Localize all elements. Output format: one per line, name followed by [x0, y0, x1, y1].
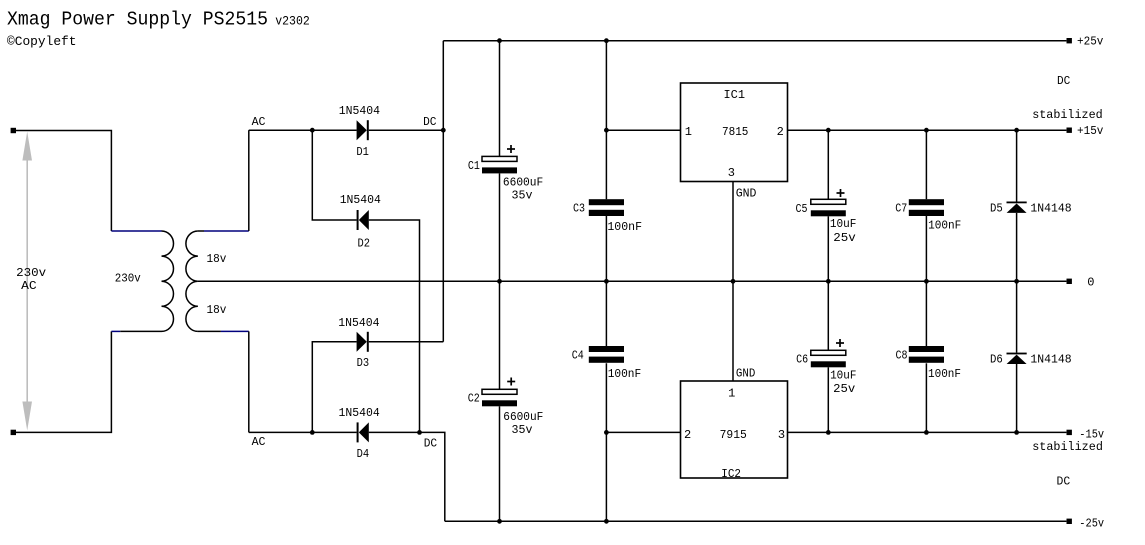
svg-text:D3: D3 [357, 356, 370, 370]
svg-text:1N4148: 1N4148 [1030, 353, 1071, 367]
junction +DC top [441, 128, 446, 133]
svg-text:D2: D2 [358, 236, 371, 250]
wire -25v rail [445, 520, 1067, 522]
diode D1 [357, 120, 369, 140]
svg-text:1: 1 [728, 386, 735, 400]
wire C2 top [499, 281, 501, 389]
junction AC bottom [310, 430, 315, 435]
wire IC2 pin2 input [606, 431, 680, 433]
svg-text:2: 2 [777, 125, 784, 139]
wire D3 cathode to +DC node [369, 341, 444, 343]
svg-text:10uF: 10uF [830, 217, 857, 231]
wire C5 top [827, 130, 829, 199]
svg-text:7915: 7915 [720, 428, 747, 442]
wire secondary top [198, 130, 249, 231]
svg-text:C8: C8 [896, 349, 908, 363]
svg-text:v2302: v2302 [275, 14, 310, 29]
svg-text:1N5404: 1N5404 [339, 406, 380, 420]
svg-text:10uF: 10uF [830, 368, 856, 382]
wire C5 bottom [827, 216, 829, 281]
svg-text:35v: 35v [512, 188, 533, 202]
svg-text:D5: D5 [990, 202, 1003, 216]
svg-text:+15v: +15v [1077, 124, 1103, 138]
wire C4 bottom / -DC feed [605, 363, 607, 521]
label + C6 [836, 342, 844, 344]
output terminal 0 [1067, 279, 1072, 284]
wire IC1 pin3 to 0 [732, 182, 734, 282]
svg-text:AC: AC [252, 115, 266, 129]
junction C3 0 rail [604, 279, 609, 284]
svg-text:18v: 18v [207, 303, 227, 317]
wire D6 bottom [1016, 364, 1018, 432]
svg-text:3: 3 [728, 166, 735, 180]
capacitor C6 [811, 350, 846, 367]
output terminal -25v [1067, 519, 1072, 524]
input terminal bottom-left [11, 430, 16, 435]
wire D1 cathode to +DC node [369, 129, 444, 131]
diode D6 [1007, 353, 1027, 364]
capacitor C2 [482, 389, 517, 406]
svg-text:C1: C1 [468, 159, 480, 173]
wire D2 anode to -DC link [369, 220, 420, 432]
svg-text:D4: D4 [357, 447, 370, 461]
svg-text:C5: C5 [796, 202, 808, 216]
svg-text:stabilized: stabilized [1032, 440, 1103, 454]
op-amp/regulator IC2 box [681, 381, 788, 478]
capacitor C1 [482, 156, 517, 173]
wire +DC vertical [442, 41, 444, 342]
svg-text:C7: C7 [895, 202, 907, 216]
svg-text:1N5404: 1N5404 [339, 104, 380, 118]
wire AC top [249, 129, 357, 131]
label + C2 [507, 381, 515, 383]
transformer T1 primary winding [162, 231, 174, 331]
wire C7 top [925, 130, 927, 199]
capacitor C4 [589, 346, 624, 363]
diode D2 [357, 210, 369, 230]
svg-text:©Copyleft: ©Copyleft [7, 34, 77, 49]
wire D4 anode to -DC node [369, 432, 445, 521]
junction GND 0 rail [731, 279, 736, 284]
junction C1 +25v rail [497, 38, 502, 43]
wire C6 bottom [827, 367, 829, 432]
wire C3 bottom [605, 216, 607, 281]
capacitor C3 [589, 199, 624, 216]
svg-text:stabilized: stabilized [1032, 108, 1103, 122]
wire C7 bottom [925, 216, 927, 281]
svg-text:C4: C4 [572, 349, 584, 363]
svg-text:230v: 230v [16, 266, 46, 280]
transformer T1 secondary winding [186, 231, 198, 331]
svg-text:-25v: -25v [1079, 517, 1104, 531]
junction C1 0 rail [497, 279, 502, 284]
wire C6 top [827, 281, 829, 350]
svg-text:3: 3 [778, 428, 785, 442]
svg-text:DC: DC [424, 436, 437, 450]
junction AC top [310, 128, 315, 133]
svg-text:C3: C3 [573, 202, 585, 216]
junction D5 +15v [1014, 128, 1019, 133]
junction C5 +15v [826, 128, 831, 133]
230v AC input arrow [22, 132, 32, 431]
svg-text:DC: DC [423, 115, 436, 129]
svg-text:1N5404: 1N5404 [340, 193, 381, 207]
diode D3 [357, 332, 369, 352]
junction C8 -15v [924, 430, 929, 435]
svg-text:IC1: IC1 [724, 88, 746, 102]
wire D5 top [1016, 130, 1018, 201]
capacitor C7 [909, 199, 944, 216]
wire primary bottom [111, 330, 161, 332]
capacitor C8 [909, 346, 944, 363]
svg-text:+25v: +25v [1077, 34, 1103, 48]
wire branch AC top to D2 [312, 130, 356, 220]
wire C1 top [499, 41, 501, 157]
wire +25v rail [443, 40, 1066, 42]
junction D6 -15v [1014, 430, 1019, 435]
svg-text:6600uF: 6600uF [503, 175, 543, 189]
junction C5 0 rail [826, 279, 831, 284]
output terminal +15v [1067, 128, 1072, 133]
wire +DC feed to IC1 [605, 41, 607, 200]
junction C6 -15v [826, 430, 831, 435]
svg-text:C6: C6 [796, 353, 808, 367]
svg-text:DC: DC [1057, 74, 1070, 88]
wire AC bottom [249, 431, 357, 433]
svg-text:GND: GND [736, 187, 757, 201]
svg-text:D6: D6 [990, 353, 1003, 367]
wire -15v rail [788, 431, 1067, 433]
junction C7 0 rail [924, 279, 929, 284]
svg-text:18v: 18v [207, 252, 227, 266]
svg-text:230v: 230v [115, 271, 141, 285]
label + C1 [507, 148, 515, 150]
wire C8 bottom [925, 363, 927, 432]
junction feed +25v rail [604, 38, 609, 43]
svg-text:AC: AC [21, 279, 37, 293]
svg-text:100nF: 100nF [928, 367, 961, 381]
svg-text:2: 2 [684, 428, 691, 442]
junction D5 0 rail [1014, 279, 1019, 284]
junction C2 -25v rail [497, 519, 502, 524]
svg-text:AC: AC [252, 435, 266, 449]
label 230v AC input [16, 266, 46, 293]
capacitor C5 [811, 199, 846, 216]
output terminal +25v [1067, 38, 1072, 43]
wire IC1 pin1 input [606, 129, 680, 131]
junction feed -25v rail [604, 519, 609, 524]
wire D6 top [1016, 281, 1018, 352]
wire secondary bottom [198, 331, 249, 432]
svg-text:25v: 25v [833, 382, 855, 396]
wire input neutral [16, 331, 111, 432]
junction IC2 input [604, 430, 609, 435]
svg-text:100nF: 100nF [928, 219, 961, 233]
junction IC1 input [604, 128, 609, 133]
wire input live [16, 131, 111, 232]
svg-text:1N5404: 1N5404 [338, 316, 379, 330]
svg-text:C2: C2 [468, 392, 480, 406]
svg-text:Xmag Power Supply PS2515: Xmag Power Supply PS2515 [7, 9, 268, 31]
diode D4 [357, 422, 369, 442]
wire IC2 pin1 to 0 [732, 281, 734, 381]
svg-text:GND: GND [736, 366, 755, 380]
wire branch AC bottom to D3 [312, 342, 356, 433]
junction C7 +15v [924, 128, 929, 133]
svg-text:100nF: 100nF [607, 220, 642, 234]
svg-text:1N4148: 1N4148 [1030, 202, 1071, 216]
diode D5 [1007, 202, 1027, 213]
svg-text:0: 0 [1087, 275, 1094, 289]
wire C2 bottom [499, 406, 501, 521]
svg-text:35v: 35v [512, 423, 533, 437]
svg-text:25v: 25v [833, 231, 856, 245]
input terminal top-left [11, 128, 16, 133]
svg-text:7815: 7815 [722, 125, 748, 139]
wire C1 bottom [499, 173, 501, 281]
wire C8 top [925, 281, 927, 346]
svg-text:DC: DC [1057, 475, 1071, 489]
wire D5 bottom [1016, 213, 1018, 281]
svg-text:1: 1 [685, 125, 692, 139]
label + C5 [837, 192, 845, 194]
svg-text:100nF: 100nF [608, 367, 642, 381]
output terminal -15v [1067, 430, 1072, 435]
wire 0 net centre tap rail [198, 280, 1067, 282]
svg-text:D1: D1 [356, 145, 369, 159]
op-amp/regulator IC1 box [681, 83, 788, 182]
junction -DC link [417, 430, 422, 435]
wire primary top (blue) [111, 230, 161, 232]
wire C4 top [605, 281, 607, 346]
wire +15v rail [788, 129, 1067, 131]
svg-text:6600uF: 6600uF [503, 410, 543, 424]
svg-text:IC2: IC2 [721, 467, 741, 481]
